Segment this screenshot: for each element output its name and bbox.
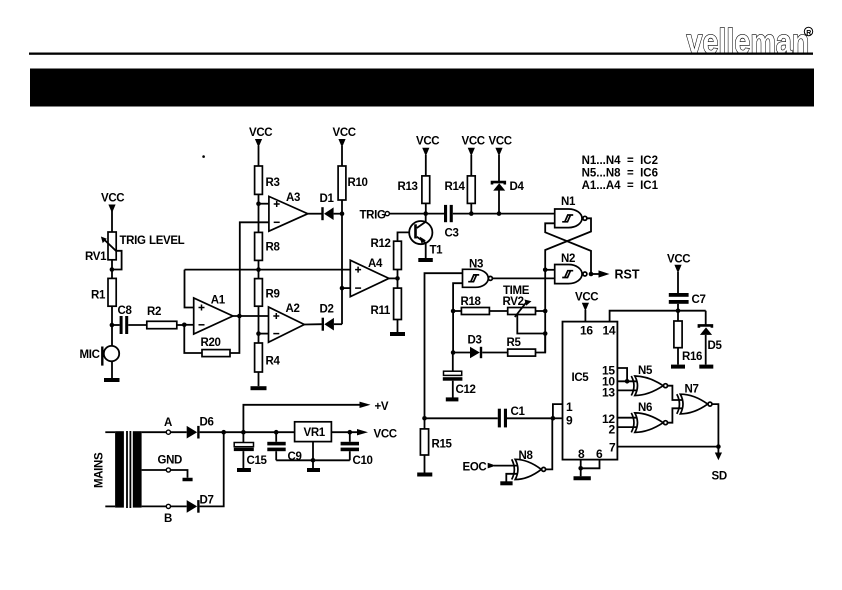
resistor R12 (371, 232, 415, 278)
capacitor C12 electrolytic (443, 353, 476, 398)
diode D3 (453, 334, 508, 358)
ground T1 (418, 258, 433, 262)
microphone MIC (80, 346, 120, 366)
svg-text:R20: R20 (201, 337, 221, 349)
diode D7 (187, 432, 224, 513)
svg-text:N6: N6 (638, 402, 652, 414)
resistor R3 (255, 166, 280, 194)
node C9 (274, 430, 279, 435)
svg-text:N1...N4 = IC2: N1...N4 = IC2 (582, 155, 658, 167)
svg-text:IC5: IC5 (572, 372, 590, 384)
wire pin 7 (617, 446, 718, 448)
node C7/R16/pin14 (676, 308, 681, 313)
wire R3 to R8 (258, 194, 260, 232)
ground IC5 (574, 476, 591, 480)
diode D1 (320, 193, 343, 220)
resistor R11 (371, 278, 402, 332)
node RV2 right (543, 309, 548, 314)
node D1/R10 (340, 211, 345, 216)
EOC input arrow (463, 461, 522, 473)
wire A4 minus (342, 287, 350, 289)
svg-text:A1: A1 (211, 294, 226, 306)
op-amp A4 (350, 258, 389, 297)
node A terminal (142, 417, 187, 434)
ground link wire (276, 442, 350, 468)
svg-text:VR1: VR1 (304, 427, 326, 439)
wire latch tie down to RV2/R5 (544, 270, 546, 353)
svg-text:VCC: VCC (575, 291, 598, 303)
wire pin 10 to N5 (617, 380, 638, 382)
svg-text:16: 16 (580, 323, 593, 337)
supply rail wire (224, 431, 295, 433)
node VR1 ground (311, 458, 316, 463)
ground R16 (671, 365, 685, 369)
svg-text:N5...N8 = IC6: N5...N8 = IC6 (582, 167, 658, 179)
velleman logo (687, 22, 813, 61)
VCC supply at C7 (667, 253, 690, 293)
+V branch arrow (243, 401, 388, 432)
svg-text:N8: N8 (519, 450, 534, 462)
svg-text:D5: D5 (708, 340, 723, 352)
wire A4 output (389, 277, 398, 279)
capacitor C10 (341, 432, 373, 467)
stray dot (202, 155, 205, 158)
svg-text:2: 2 (609, 423, 616, 437)
svg-text:VCC: VCC (416, 135, 439, 147)
node rail/R8/R9 (256, 267, 261, 272)
svg-text:R14: R14 (445, 181, 466, 193)
wire N3 output to N2 input (493, 277, 555, 279)
svg-text:13: 13 (602, 385, 615, 399)
transformer primary winding (115, 431, 124, 507)
node D4/TRIG line (497, 211, 502, 216)
svg-text:9: 9 (566, 414, 573, 428)
svg-text:EOC: EOC (463, 461, 487, 473)
wire N8 output riser (546, 418, 552, 469)
svg-text:C9: C9 (288, 451, 302, 463)
svg-text:R5: R5 (507, 337, 522, 349)
resistor R9 (255, 279, 280, 343)
svg-text:TRIG: TRIG (360, 209, 386, 221)
wire A3 minus feedback riser (240, 222, 269, 316)
svg-text:VCC: VCC (489, 135, 512, 147)
svg-text:D6: D6 (200, 416, 214, 428)
svg-text:A1...A4 = IC1: A1...A4 = IC1 (582, 180, 659, 192)
svg-text:N7: N7 (685, 383, 699, 395)
node RV2 wiper tie (543, 331, 548, 336)
svg-text:R12: R12 (371, 238, 391, 250)
svg-text:R9: R9 (266, 288, 280, 300)
xnor gate N7 (677, 383, 712, 414)
node R9/R4/A2 minus (256, 331, 261, 336)
svg-text:7: 7 (609, 440, 616, 454)
potentiometer RV2 (503, 296, 546, 334)
svg-text:C12: C12 (456, 384, 476, 396)
svg-text:8: 8 (578, 447, 585, 461)
node pin15/10 (625, 379, 630, 384)
ground R4 (251, 386, 267, 390)
ground N8 input (500, 481, 512, 485)
svg-text:C15: C15 (247, 455, 268, 467)
capacitor C8 (112, 305, 147, 334)
svg-text:D3: D3 (468, 334, 482, 346)
ground R11 (390, 332, 405, 336)
svg-text:N2: N2 (561, 253, 575, 265)
svg-text:RV2: RV2 (503, 296, 524, 308)
svg-text:R2: R2 (147, 306, 161, 318)
zener diode D4 (492, 181, 524, 214)
op-amp A3 (269, 192, 308, 231)
svg-text:R13: R13 (398, 181, 418, 193)
svg-text:C1: C1 (511, 406, 526, 418)
svg-text:R18: R18 (461, 296, 482, 308)
zener diode D5 (699, 311, 723, 365)
svg-text:A4: A4 (368, 258, 383, 270)
svg-text:R1: R1 (91, 290, 106, 302)
node T1 collector / R13 (423, 211, 428, 216)
resistor R5 (507, 334, 546, 357)
wire A2 minus input (259, 333, 269, 335)
op-amp A1 (194, 294, 233, 334)
node pin8/6 (578, 466, 583, 471)
svg-text:14: 14 (603, 323, 616, 337)
ground D5 (699, 365, 713, 369)
wire R10/D1 down to D2 (341, 214, 343, 325)
svg-text:SD: SD (712, 471, 727, 483)
resistor R18 (453, 296, 508, 315)
svg-text:GND: GND (158, 454, 183, 466)
VCC supply at RV1 (101, 193, 124, 233)
svg-text:MIC: MIC (80, 349, 100, 361)
IC5 box (563, 322, 618, 460)
regulator VR1 (295, 422, 358, 442)
capacitor C1 (425, 406, 553, 428)
xnor gate N5 (631, 365, 667, 396)
wire (111, 260, 113, 279)
svg-text:D4: D4 (510, 181, 525, 193)
svg-text:RST: RST (615, 268, 640, 282)
wire N3 upper input loop (425, 273, 463, 418)
capacitor C7 (669, 293, 706, 311)
nand gate N1 (555, 196, 587, 228)
svg-text:R3: R3 (266, 177, 280, 189)
header rule (29, 53, 813, 55)
svg-text:N5: N5 (638, 365, 653, 377)
capacitor C3 (444, 205, 555, 239)
node A4 output (395, 276, 400, 281)
VCC output arrow (357, 428, 397, 440)
node A4 minus (340, 286, 345, 291)
svg-text:6: 6 (596, 447, 603, 461)
ground C12 (446, 397, 459, 401)
latch cross-coupling wires (545, 218, 591, 274)
node R3/A3 plus (256, 201, 261, 206)
resistor R1 (91, 278, 116, 306)
svg-text:MAINS: MAINS (94, 452, 106, 488)
svg-text:R: R (806, 30, 811, 37)
svg-text:R8: R8 (266, 241, 281, 253)
TRIG input (360, 209, 445, 221)
wire N3 lower input riser (453, 283, 462, 352)
node A1 output (237, 314, 242, 319)
svg-text:B: B (164, 513, 172, 525)
svg-text:RV1: RV1 (85, 251, 107, 263)
VCC supply at R10 (333, 127, 356, 166)
wire A1 plus riser (185, 270, 194, 308)
svg-text:VCC: VCC (249, 127, 272, 139)
node C15 (241, 430, 246, 435)
wire A3 plus input (259, 203, 269, 205)
wire N6 out to N7 (668, 408, 686, 422)
ground under MIC (104, 361, 120, 380)
potentiometer RV1 (101, 232, 122, 270)
wire pin 12 to N6 (617, 417, 638, 419)
node GND terminal (142, 454, 188, 477)
op-amp A2 (269, 303, 305, 342)
RST output arrow (591, 268, 640, 282)
title bar (30, 69, 814, 107)
svg-text:VCC: VCC (333, 127, 356, 139)
ground R15 (417, 473, 432, 477)
svg-text:+V: +V (375, 401, 389, 413)
resistor R2 (147, 306, 185, 328)
node D6/D7 cathodes (221, 430, 226, 435)
transformer core (127, 431, 130, 508)
VCC supply at R13 (416, 135, 439, 176)
resistor R10 (338, 166, 367, 214)
diode D6 (187, 416, 224, 438)
transistor T1 (409, 214, 443, 258)
svg-text:R10: R10 (348, 177, 368, 189)
wire pin 8 to ground (580, 460, 582, 477)
svg-text:C8: C8 (118, 305, 133, 317)
VCC supply at D4 (489, 135, 512, 183)
resistor R14 (445, 176, 476, 214)
svg-text:R15: R15 (432, 438, 453, 450)
svg-text:VCC: VCC (667, 253, 690, 265)
node R14/TRIG line (469, 211, 474, 216)
node A1 minus (182, 323, 187, 328)
node D3 anode (451, 350, 456, 355)
svg-text:1: 1 (566, 400, 573, 414)
svg-text:A3: A3 (286, 192, 300, 204)
wire A1 minus input (184, 324, 193, 326)
svg-text:R16: R16 (682, 351, 702, 363)
wire (111, 306, 113, 346)
svg-text:A: A (164, 417, 172, 429)
node pin7/N7 (716, 444, 721, 449)
wire pin 6 (581, 460, 600, 469)
ground VR1 (307, 468, 320, 472)
wire A1 output to A2 plus (233, 315, 269, 317)
nand gate N3 (463, 258, 493, 287)
svg-text:D7: D7 (200, 495, 214, 507)
node C1/R15/N3 line (422, 416, 427, 421)
svg-text:R4: R4 (266, 356, 281, 368)
wire pin 15 (617, 368, 627, 381)
svg-text:C10: C10 (353, 455, 373, 467)
node N2 output tie (589, 272, 594, 277)
wire A3 output (308, 213, 322, 215)
resistor R20 feedback (184, 316, 239, 357)
wire N5 out to N7 (668, 386, 686, 400)
wire pin 14 to C7 node (610, 311, 706, 322)
wire pin 13 to N5 (617, 389, 638, 391)
svg-text:T1: T1 (430, 244, 444, 256)
transformer primary wires (105, 432, 115, 506)
svg-text:C3: C3 (445, 227, 459, 239)
capacitor C15 electrolytic (234, 432, 268, 468)
node C1/IC5 pins 1-9 (551, 416, 556, 421)
svg-text:C7: C7 (692, 294, 706, 306)
wire pin 2 to N6 (617, 426, 638, 428)
svg-text:A2: A2 (286, 303, 300, 315)
VCC supply at R3 (249, 127, 272, 166)
wire pin 9 (553, 417, 563, 419)
svg-text:TRIG LEVEL: TRIG LEVEL (120, 235, 185, 247)
VCC supply at R14 (462, 135, 485, 176)
node C10 (348, 430, 353, 435)
resistor R4 (255, 343, 281, 386)
svg-text:R11: R11 (371, 305, 391, 317)
node N2 input tie (543, 268, 548, 273)
transformer secondary winding (133, 431, 142, 507)
diode D2 (320, 303, 343, 330)
svg-text:D1: D1 (320, 193, 335, 205)
nand gate N2 (555, 253, 587, 284)
node R18 left (451, 309, 456, 314)
xnor gate N8 (506, 450, 545, 482)
svg-text:D2: D2 (320, 303, 334, 315)
svg-text:VCC: VCC (462, 135, 485, 147)
svg-text:VCC: VCC (374, 428, 397, 440)
node B terminal (142, 504, 187, 525)
svg-text:VCC: VCC (101, 193, 124, 205)
node RV1/R1 junction (110, 267, 115, 272)
resistor R13 (398, 176, 430, 214)
capacitor C9 (267, 432, 301, 463)
ground GND tap (183, 478, 193, 482)
rail wire to A4 plus (185, 269, 351, 271)
node C8/MIC junction (110, 323, 115, 328)
svg-text:velleman: velleman (687, 22, 810, 61)
resistor R16 (674, 311, 702, 365)
SD output arrow (712, 447, 727, 483)
VCC supply at pin16 (575, 291, 598, 321)
resistor R15 (420, 418, 452, 472)
resistor R8 (255, 232, 281, 278)
svg-text:N1: N1 (561, 196, 576, 208)
svg-text:N3: N3 (469, 258, 483, 270)
wire N7 output down (712, 404, 718, 447)
wire A2 output (304, 323, 322, 325)
wire pin 1 (553, 404, 563, 418)
ground C15 (237, 468, 251, 472)
xnor gate N6 (631, 402, 667, 433)
